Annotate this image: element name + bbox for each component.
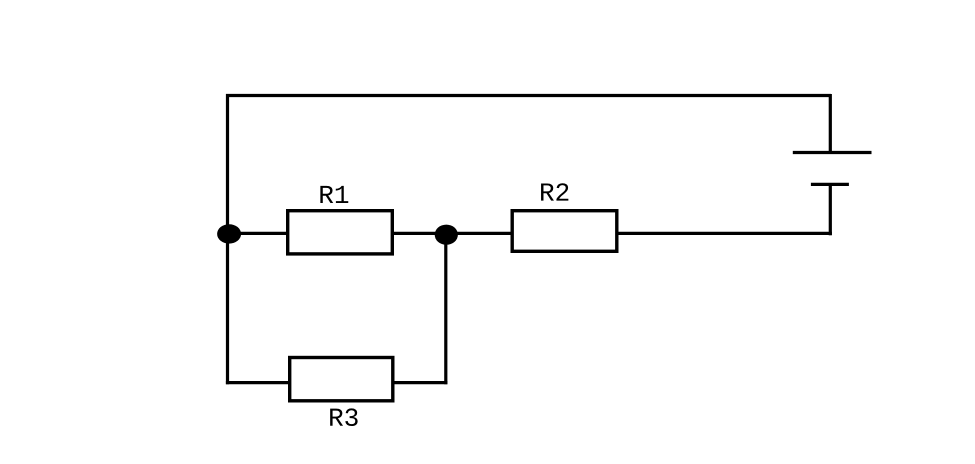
resistor R2 label xyxy=(541,183,568,200)
resistor R3 label xyxy=(330,408,357,426)
node A junction dot xyxy=(217,224,241,243)
wire battery positive lead xyxy=(829,94,832,153)
wire R2 to battery corner xyxy=(617,232,832,235)
wire node B to R2 xyxy=(445,232,512,235)
resistor R1 body xyxy=(288,211,393,254)
resistor R2 body xyxy=(512,211,617,252)
wire R1 to node B xyxy=(392,232,447,235)
wire right vertical riser xyxy=(444,234,447,384)
node B junction dot xyxy=(435,225,458,245)
wire left vertical xyxy=(226,94,229,384)
wire R3 to right riser xyxy=(392,381,447,384)
resistor R3 body xyxy=(290,358,393,401)
wire battery negative lead xyxy=(829,185,832,235)
battery V1 positive plate xyxy=(793,151,872,154)
battery V1 negative plate xyxy=(811,183,849,186)
wire node A to R1 xyxy=(228,232,288,235)
wire top horizontal xyxy=(226,94,831,97)
resistor R1 label xyxy=(320,186,348,203)
wire bottom left horizontal xyxy=(226,381,290,384)
